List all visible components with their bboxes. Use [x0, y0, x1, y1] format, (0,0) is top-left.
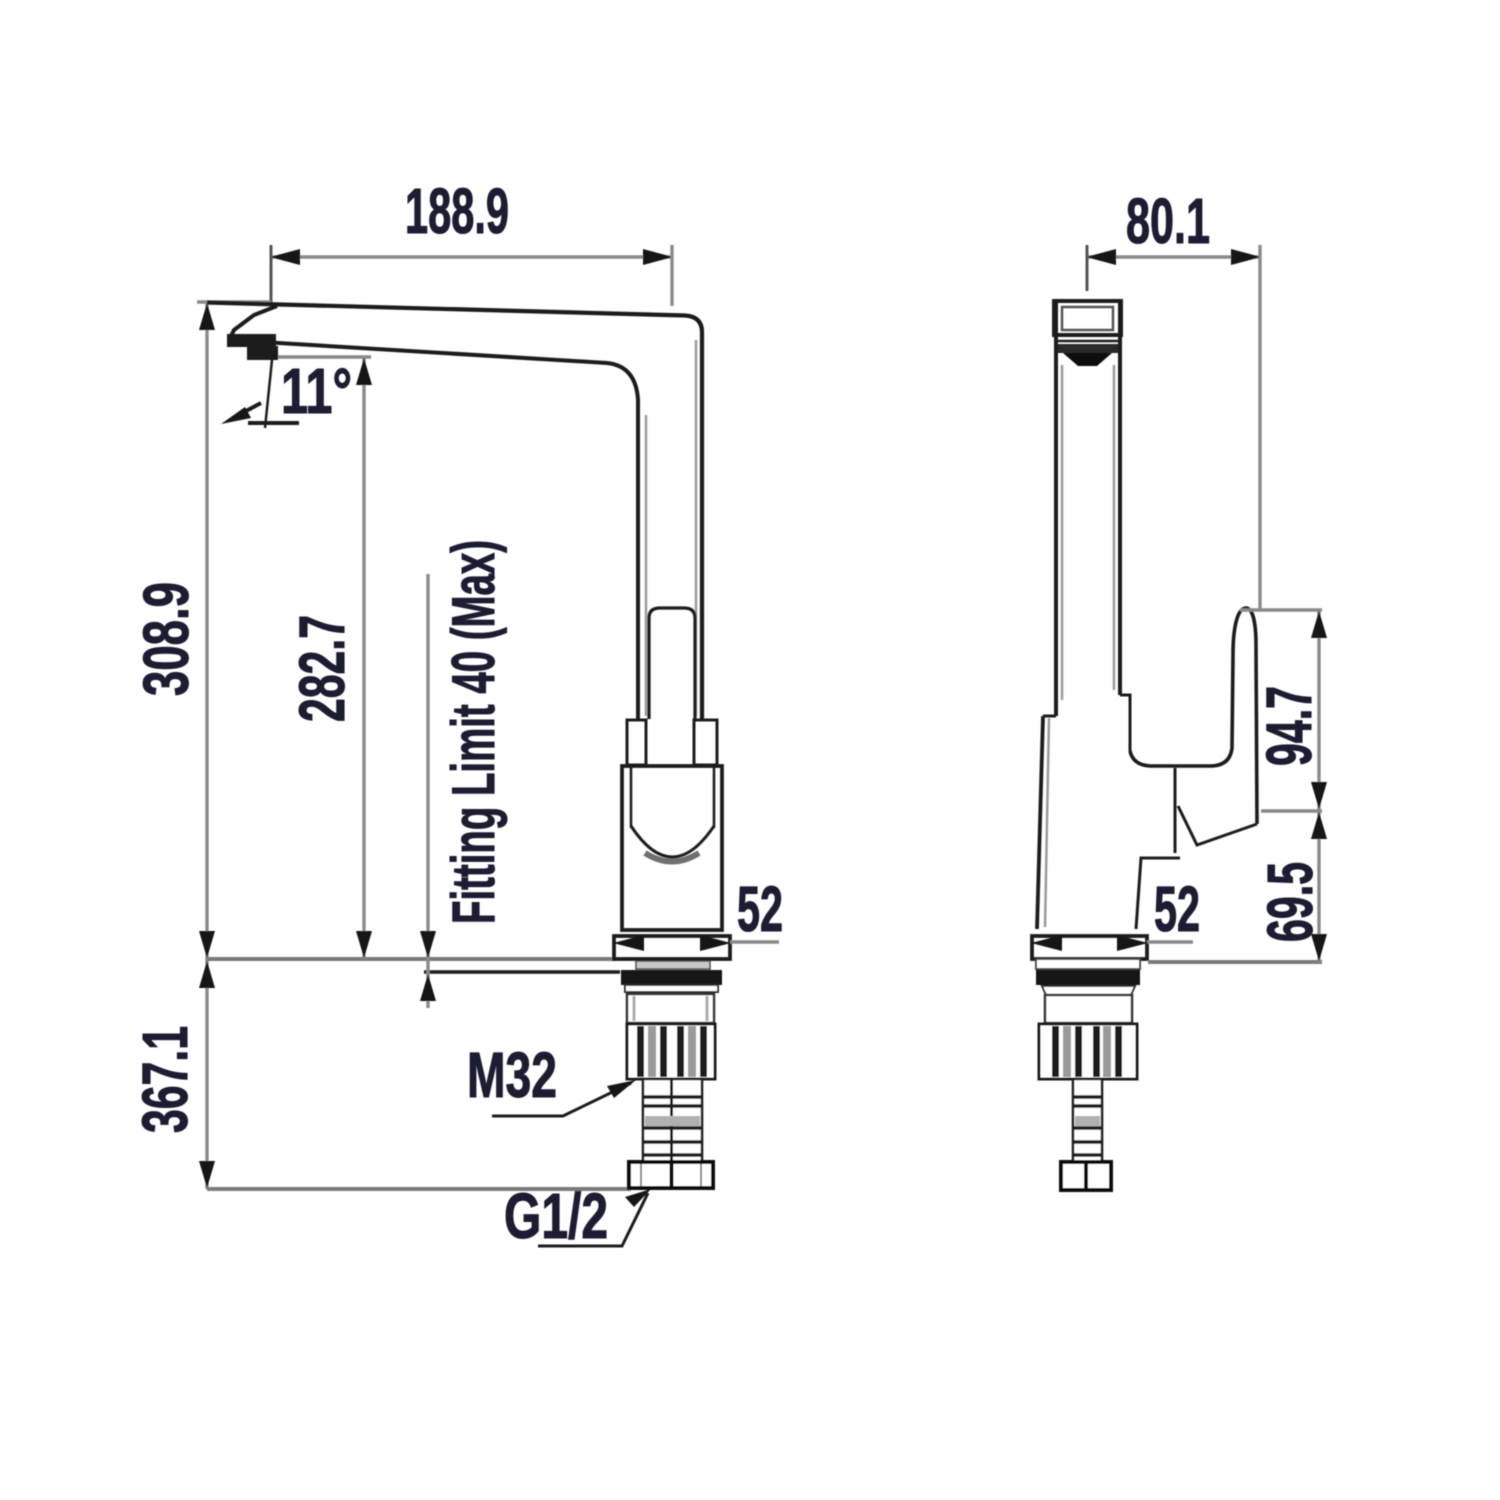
- dimension 69.5 bottom arrowhead: [1311, 934, 1327, 961]
- hose segment line 5: [643, 1153, 702, 1157]
- thread bar side 3: [1093, 1026, 1100, 1077]
- svg-text:80.1: 80.1: [1126, 185, 1210, 257]
- thread bar 3: [677, 1026, 684, 1077]
- dimension 367.1 bottom arrowhead: [199, 1161, 215, 1188]
- lower body left wall: [1037, 716, 1043, 929]
- pipe inner shading left: [1061, 365, 1064, 700]
- thread shading side a: [1063, 1026, 1071, 1077]
- hose segment side line 5: [1073, 1153, 1102, 1157]
- threaded section M32: [627, 1024, 715, 1079]
- nut divider side: [1084, 1162, 1088, 1190]
- svg-text:11°: 11°: [281, 355, 352, 427]
- svg-text:367.1: 367.1: [129, 1026, 201, 1133]
- thread bar side 2: [1075, 1026, 1082, 1077]
- svg-text:M32: M32: [467, 1039, 557, 1111]
- dimension 52 line (side): [1147, 940, 1193, 943]
- hose segment line 4: [643, 1140, 702, 1144]
- dimension 80.1 right extension line: [1258, 245, 1261, 610]
- svg-text:69.5: 69.5: [1254, 862, 1326, 942]
- body inner left wall: [630, 766, 633, 828]
- hose outline: [643, 1079, 702, 1162]
- dimension 52 left arrowhead (side): [1031, 935, 1062, 951]
- joint step left: [1043, 715, 1056, 718]
- cap lower band line: [1056, 340, 1119, 343]
- dimension 308.9 bottom arrowhead: [199, 931, 215, 958]
- dimension 367.1 line: [205, 959, 208, 1189]
- handle base and lever side: [1130, 608, 1257, 824]
- cartridge shading arc: [645, 853, 699, 862]
- hose segment side line 3: [1073, 1126, 1102, 1130]
- hose segment side line 4: [1073, 1140, 1102, 1144]
- dimension 94.7 line: [1317, 610, 1320, 810]
- 11 degree arrowhead: [221, 407, 251, 424]
- gasket band: [636, 961, 710, 969]
- washer band: [625, 985, 718, 992]
- hose segment line 1: [643, 1095, 702, 1099]
- thread shading bar b: [688, 1026, 696, 1077]
- cartridge dome arc: [631, 826, 714, 857]
- dimension 282.7 top extension line: [277, 355, 371, 358]
- pipe left wall side: [1054, 302, 1058, 716]
- handle lever front: [649, 608, 695, 719]
- svg-text:52: 52: [737, 873, 783, 945]
- locknut dark band side: [1036, 970, 1140, 985]
- shank inner shading left: [633, 996, 636, 1021]
- 11 degree stream line: [265, 360, 272, 428]
- countertop line right view: [1148, 960, 1322, 964]
- hose segment side line 1: [1073, 1095, 1102, 1099]
- dimension 282.7 line: [362, 357, 365, 959]
- thread bar 2: [660, 1026, 667, 1077]
- body outline: [622, 766, 722, 930]
- dimension 52 right arrowhead (side): [1117, 935, 1148, 951]
- spout bottom outline: [262, 342, 638, 719]
- nut inner line right: [700, 1164, 702, 1186]
- hose gray segment side: [1075, 1116, 1100, 1126]
- svg-text:G1/2: G1/2: [504, 1180, 608, 1252]
- thread bar 1: [637, 1026, 644, 1077]
- svg-text:282.7: 282.7: [286, 615, 358, 722]
- fitting limit extension line: [426, 574, 429, 1008]
- pipe right wall side: [1118, 302, 1122, 695]
- thread bar 4: [700, 1026, 707, 1077]
- threaded section side: [1039, 1024, 1137, 1079]
- thread bar side 1: [1052, 1026, 1059, 1077]
- leader M32: [492, 1083, 631, 1116]
- aerator band side: [1056, 344, 1118, 353]
- thread bar side 4: [1115, 1026, 1122, 1077]
- svg-text:94.7: 94.7: [1253, 686, 1325, 766]
- dimension 80.1 left extension line: [1086, 245, 1089, 291]
- dimension 367.1 top arrowhead: [199, 961, 215, 988]
- joint step right: [1120, 695, 1130, 751]
- dimension 188.9 right extension line: [670, 245, 673, 306]
- leader M32 arrowhead: [607, 1080, 636, 1098]
- locknut dark band: [621, 970, 722, 985]
- hose outline side: [1073, 1079, 1102, 1162]
- top cap inner window: [1062, 307, 1113, 330]
- pipe inner shading left (front): [645, 415, 648, 716]
- aerator lower band: [247, 346, 278, 360]
- dimension 188.9 line: [271, 255, 672, 258]
- hose segment line 2: [643, 1104, 702, 1108]
- dimension 80.1 right arrowhead: [1231, 249, 1261, 265]
- leader G1/2 arrowhead: [625, 1189, 651, 1207]
- thread shading bar a: [648, 1026, 656, 1077]
- fitting limit lower arrowhead: [420, 974, 436, 1001]
- body rear wall: [1174, 768, 1177, 853]
- dimension 52 line (front): [730, 940, 779, 943]
- dimension 80.1 line: [1087, 255, 1260, 258]
- dimension 80.1 left arrowhead: [1086, 249, 1116, 265]
- leader G1/2: [538, 1193, 648, 1246]
- base flange: [614, 936, 730, 959]
- 11 degree horizontal line: [248, 421, 299, 425]
- countertop line: [207, 957, 616, 961]
- 11 degree arrow line: [233, 403, 261, 418]
- hose gray segment: [645, 1116, 700, 1126]
- dimension 52 right arrowhead (front): [700, 935, 731, 951]
- svg-text:52: 52: [1154, 873, 1200, 945]
- lower body inner shading: [1045, 718, 1049, 927]
- nut inner line left: [640, 1164, 642, 1186]
- nut divider: [670, 1162, 674, 1188]
- shank inner shading right: [706, 996, 709, 1021]
- svg-text:188.9: 188.9: [405, 175, 509, 247]
- dimension 94.7 top arrowhead: [1311, 611, 1327, 638]
- dimension 94.7 bottom arrowhead: [1311, 782, 1327, 809]
- fitting limit upper arrowhead: [420, 931, 436, 958]
- handle collar left: [627, 720, 646, 765]
- body rear step: [1136, 858, 1180, 929]
- dimension 69.5 line: [1317, 811, 1320, 962]
- dimension 308.9 line: [205, 302, 208, 959]
- top cap outline: [1054, 301, 1121, 335]
- shank cylinder side: [1045, 995, 1132, 1023]
- hose end nut G1/2: [629, 1162, 713, 1188]
- hose segment side line 2: [1073, 1104, 1102, 1108]
- dimension 188.9 left arrowhead: [270, 249, 300, 265]
- aerator outlet trapezoid: [1063, 353, 1112, 366]
- svg-text:Fitting Limit 40 (Max): Fitting Limit 40 (Max): [440, 540, 507, 924]
- hose end nut side: [1061, 1162, 1111, 1190]
- thread shading side b: [1103, 1026, 1111, 1077]
- gasket band side: [1036, 959, 1140, 969]
- pipe inner shading right: [1113, 365, 1116, 690]
- fitting limit datum line: [424, 970, 620, 974]
- handle underside: [1178, 806, 1257, 845]
- dimension 282.7 top arrowhead: [356, 358, 372, 385]
- body inner right wall: [713, 766, 716, 828]
- handle collar right: [694, 720, 717, 765]
- dimension 188.9 right arrowhead: [643, 249, 673, 265]
- aerator upper band: [227, 334, 276, 347]
- base flange side: [1032, 936, 1147, 959]
- dimension 94.7 top extension line: [1240, 608, 1322, 611]
- pipe inner shading right (front): [695, 340, 698, 716]
- spout tip curve: [229, 306, 277, 340]
- spout top outline: [207, 303, 702, 720]
- shank cylinder: [627, 994, 714, 1023]
- dimension 308.9 top extension line: [197, 300, 271, 303]
- dimension 308.9 top arrowhead: [199, 303, 215, 330]
- washer band side: [1042, 986, 1135, 995]
- hose center divider: [670, 1079, 673, 1162]
- hose segment line 3: [643, 1126, 702, 1130]
- dimension 94.7 69.5 middle extension line: [1261, 809, 1322, 812]
- dimension 188.9 left extension line: [270, 245, 273, 303]
- svg-text:308.9: 308.9: [130, 582, 202, 696]
- dimension 52 left arrowhead (front): [613, 935, 644, 951]
- dimension 282.7 bottom arrowhead: [356, 931, 372, 958]
- dimension 69.5 top arrowhead: [1311, 812, 1327, 839]
- bottom reference line: [207, 1187, 631, 1191]
